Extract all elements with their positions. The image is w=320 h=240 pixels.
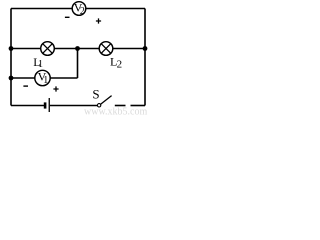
wire: right side vertical [144,9,146,106]
label + (V2 positive) [96,18,101,23]
switch S pivot [97,104,100,107]
lamp L1 [41,42,55,56]
wire: middle row, left of L1 [11,48,41,50]
wire: bottom, left of battery [11,105,44,107]
wire: bottom dash after switch [115,105,126,107]
svg-text:1: 1 [38,59,43,70]
node: junction left of L1 row [9,46,14,51]
voltmeter V2 [72,1,86,17]
node: junction between L1 and L2 (branch to V1) [75,46,80,51]
wire: top side, left of V2 [11,8,72,10]
svg-text:2: 2 [117,59,123,71]
wire: left side vertical [10,9,12,106]
wire: bottom, right segment to corner [131,105,146,107]
svg-text:S: S [92,86,99,101]
switch S lever [101,96,112,105]
wire: V1 row, left of V1 [11,77,35,79]
wire: middle row, right of L2 [113,48,145,50]
wire: V1 row, right of V1 up to branch [50,77,77,79]
label - (V2 negative) [65,17,70,18]
voltmeter V1 [35,69,50,86]
lamp L2 [99,42,113,56]
node: junction right end of middle row [143,46,148,51]
node: junction left of V1 row [9,76,14,81]
battery: short thick plate (negative) [44,102,47,108]
wire: bottom, battery to switch [50,105,98,107]
label + (V1 positive) [53,86,58,91]
svg-text:2: 2 [80,6,85,17]
wire: middle row, between L1 and L2 [54,48,99,50]
wire: vertical branch from middle row down to V1 [77,49,79,79]
label - (V1 negative) [23,85,28,86]
svg-text:1: 1 [43,75,48,86]
svg-text:www.xkb5.com: www.xkb5.com [84,107,147,116]
battery: long thin plate (positive) [49,98,50,112]
wire: top side, right of V2 [86,8,145,10]
